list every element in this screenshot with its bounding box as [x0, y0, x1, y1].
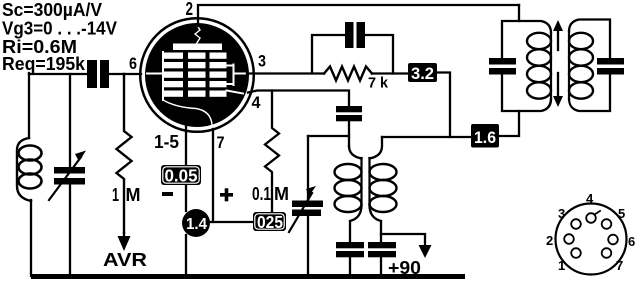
pin label 1-5: [154, 132, 179, 152]
svg-text:7: 7: [616, 258, 623, 273]
svg-text:1: 1: [558, 258, 565, 273]
svg-text:4: 4: [252, 93, 262, 112]
battery disc 1.4: [182, 209, 210, 237]
tube bottom white lead to pin 7: [163, 100, 212, 125]
wire left vertical bottom: [30, 200, 32, 276]
svg-text:M: M: [126, 185, 141, 205]
plus sign: [220, 188, 233, 201]
pin label 2: [186, 0, 194, 19]
transformer T1 left winding (IF): [502, 21, 551, 111]
resistor R2 7k: [324, 67, 372, 81]
label 1M: [112, 185, 141, 205]
wire mid horizontal left segment: [308, 135, 349, 137]
tube left bracket (pin 6 connection): [147, 52, 163, 100]
pin label 7: [217, 133, 225, 152]
capacitor C-ant (Req coupling cap): [87, 60, 109, 88]
svg-text:M: M: [274, 184, 289, 204]
wire mid horizontal right segment: [382, 136, 471, 138]
svg-text:6: 6: [628, 234, 635, 249]
socket pin 3: [571, 219, 581, 229]
tube socket base diagram: [556, 204, 627, 275]
svg-text:Req=195k: Req=195k: [2, 53, 86, 74]
+90 supply arrow: [381, 234, 425, 245]
transformer T2 left winding (oscillator): [349, 146, 362, 242]
wire pins 1-5 down: [185, 124, 187, 211]
svg-text:2: 2: [546, 233, 553, 248]
wire 3.2 to node: [437, 73, 450, 138]
box 0.05: [161, 165, 201, 186]
variable capacitor CV1: [54, 167, 85, 185]
pin label 6: [129, 54, 137, 73]
resistor R3 0.1M: [265, 91, 279, 213]
resistor R1 1M: [117, 74, 132, 233]
capacitor C3 (osc coupling): [336, 106, 362, 121]
svg-text:0.05: 0.05: [165, 166, 198, 186]
svg-text:0.1: 0.1: [252, 184, 271, 204]
socket pin 1: [571, 248, 581, 258]
svg-text:1.6: 1.6: [474, 129, 496, 147]
box 025: [253, 212, 286, 232]
svg-text:7: 7: [217, 133, 225, 152]
socket labels: [546, 191, 635, 273]
pin label 4: [252, 93, 262, 112]
box 1.6: [471, 124, 499, 148]
ground bus: [31, 274, 465, 279]
wire 1.6 to T1: [499, 111, 519, 136]
svg-text:3: 3: [558, 206, 565, 221]
svg-text:6: 6: [129, 54, 137, 73]
wire disc to 025: [210, 221, 253, 223]
tuning arrows T1: [557, 29, 559, 50]
wire pin 2 to top rail: [198, 5, 519, 26]
svg-text:5: 5: [618, 206, 625, 221]
socket pin index tick: [595, 211, 601, 215]
svg-text:AVR: AVR: [103, 249, 147, 270]
svg-text:1: 1: [112, 185, 119, 205]
capacitor C8 (T1 primary tuning): [489, 58, 516, 75]
capacitor C2 (parallel with 7k): [312, 35, 393, 74]
tube grid dashes: [164, 53, 227, 97]
transformer T2 right winding: [370, 137, 383, 242]
minus sign: [162, 192, 173, 196]
tube right bracket (pin 3 connection): [227, 65, 249, 86]
wire var-cap branch: [69, 74, 71, 276]
inductor L1 (antenna coil): [17, 138, 31, 201]
socket pin 6: [608, 235, 618, 245]
wire below disc to bus: [185, 235, 187, 276]
wire top-left rail: [29, 73, 141, 75]
box 3.2: [408, 63, 437, 83]
transformer T1 right winding: [569, 20, 610, 112]
wire pin 3 to 7k: [247, 72, 324, 74]
capacitor C7 (right osc bypass): [368, 242, 396, 257]
wire pin 7 down: [212, 129, 214, 222]
tube V1 inner disc: [145, 23, 249, 127]
variable capacitor CV2: [307, 136, 309, 276]
node text Sc: [2, 0, 118, 74]
tube grid lead from pin 2 (white zigzag): [195, 26, 200, 44]
svg-text:4: 4: [586, 191, 594, 206]
capacitor C9 (T1 secondary tuning): [597, 58, 624, 75]
tube pin 4 white lead: [227, 91, 244, 94]
tube V1 outer envelope: [140, 18, 254, 132]
svg-text:3.2: 3.2: [411, 65, 434, 83]
socket pin 4: [586, 213, 596, 223]
wire top rail to T1: [518, 5, 520, 21]
socket pin 2: [564, 234, 574, 244]
socket pin 7: [602, 248, 612, 258]
tube anode top bar: [173, 44, 222, 51]
wire pin 4: [248, 91, 349, 107]
svg-text:3: 3: [258, 52, 266, 71]
socket pin 5: [602, 219, 612, 229]
pin label 3: [258, 52, 266, 71]
svg-text:1.4: 1.4: [186, 216, 207, 233]
svg-text:7 k: 7 k: [368, 75, 389, 92]
capacitor C6 (left osc bypass): [336, 242, 364, 257]
svg-text:2: 2: [186, 0, 194, 19]
svg-text:025: 025: [257, 212, 283, 232]
wire left vertical top: [28, 73, 30, 138]
AVR arrow: [123, 233, 125, 238]
svg-text:1-5: 1-5: [154, 132, 179, 152]
